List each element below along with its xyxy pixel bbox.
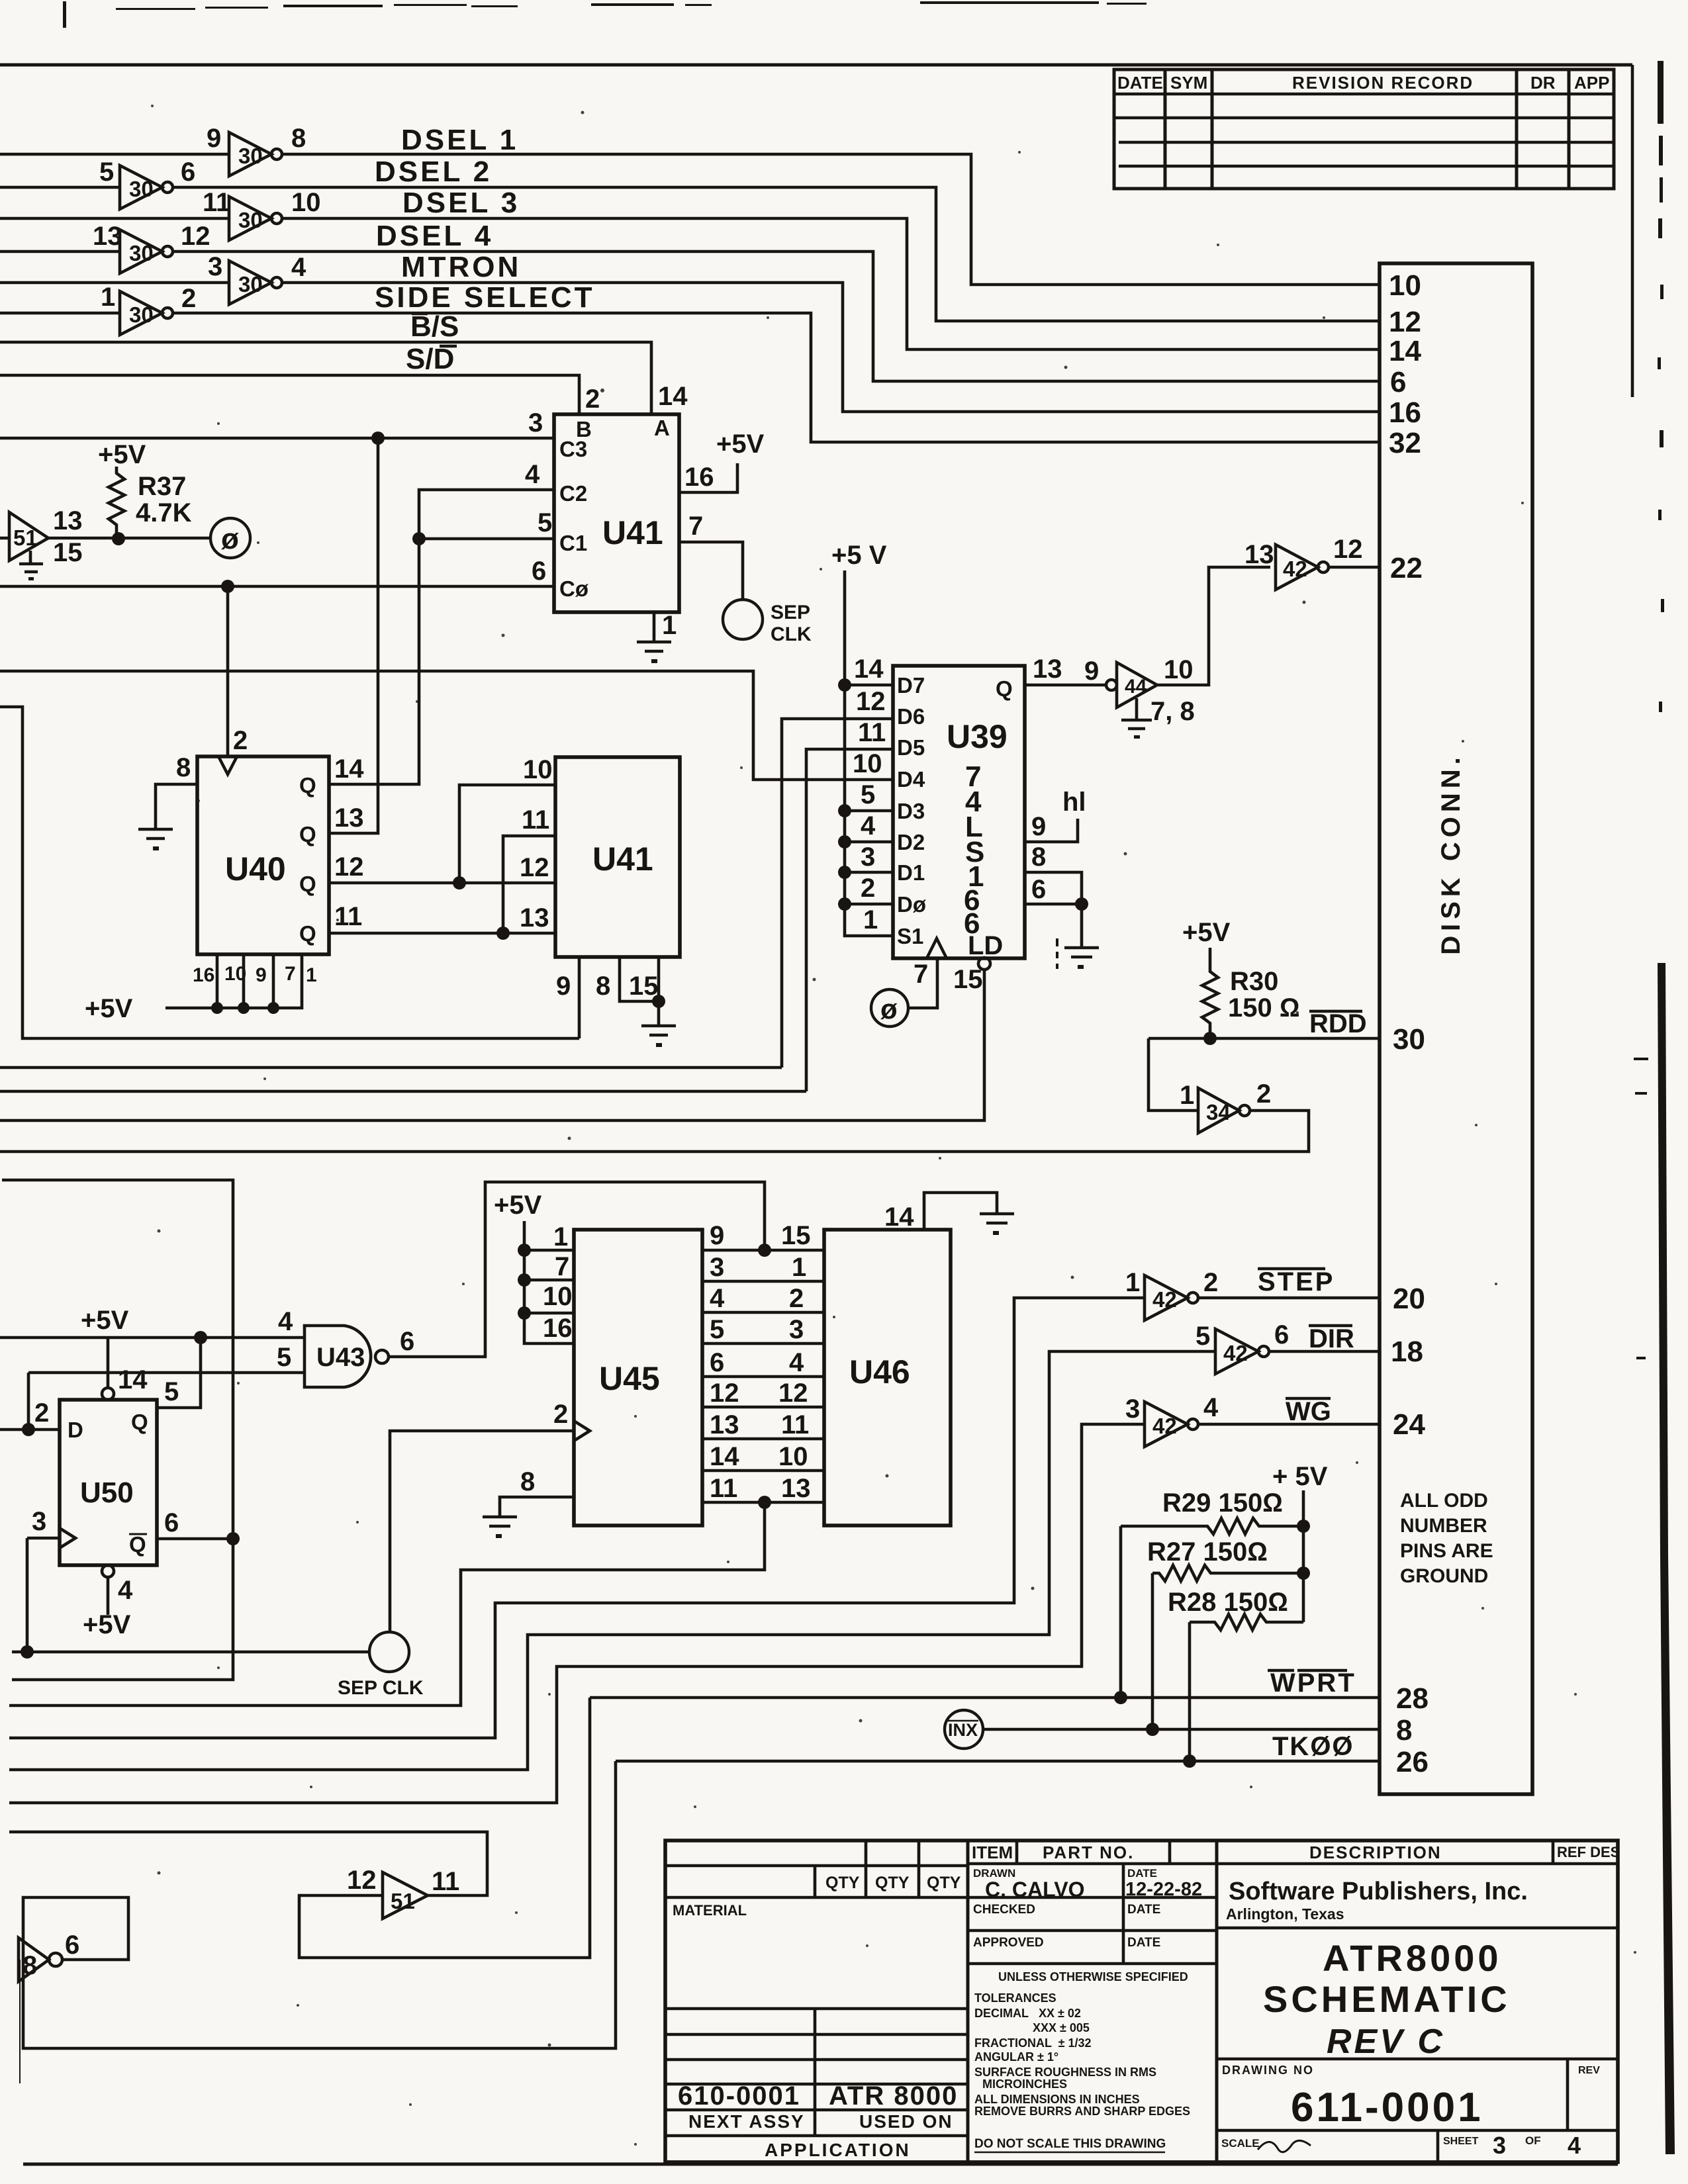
svg-text:14: 14 [854, 655, 884, 684]
svg-text:42: 42 [1283, 557, 1307, 581]
svg-text:Q: Q [299, 822, 316, 846]
svg-text:DO NOT SCALE THIS DRAWING: DO NOT SCALE THIS DRAWING [974, 2137, 1166, 2151]
svg-text:10: 10 [1389, 269, 1421, 302]
wire U43 pin5 to D junction [27, 1373, 30, 1430]
svg-text:R29 150Ω: R29 150Ω [1162, 1488, 1283, 1518]
title block middle section [968, 1864, 1217, 2152]
ground (U41a pin1) [637, 642, 671, 663]
wire U39 Q output [1025, 684, 1107, 687]
wire D6 bus line [0, 1066, 782, 1069]
svg-text:APP: APP [1574, 73, 1609, 93]
svg-text:10: 10 [853, 749, 882, 778]
svg-text:42: 42 [1152, 1414, 1177, 1438]
svg-text:12: 12 [1389, 306, 1421, 338]
svg-text:10: 10 [1164, 655, 1194, 684]
svg-text:11: 11 [432, 1867, 459, 1896]
svg-text:30: 30 [238, 208, 263, 232]
svg-text:DRAWING NO: DRAWING NO [1222, 2064, 1314, 2077]
svg-text:16: 16 [193, 964, 214, 986]
inverter 8-6 (bottom left) [19, 1931, 79, 1981]
svg-text:150 Ω: 150 Ω [1228, 993, 1300, 1023]
wire +5V pullup rail [1302, 1490, 1305, 1622]
svg-text:13: 13 [710, 1410, 739, 1439]
svg-text:MTRON: MTRON [401, 251, 521, 283]
ground (U41b) [641, 1026, 676, 1047]
svg-text:D7: D7 [897, 673, 925, 698]
wire row11/13 to left bus [9, 1502, 765, 1706]
svg-text:C3: C3 [559, 437, 587, 461]
wire DIR input net [9, 1351, 1215, 1770]
svg-text:20: 20 [1393, 1283, 1425, 1315]
svg-text:U41: U41 [592, 841, 653, 878]
svg-text:D5: D5 [897, 735, 925, 760]
svg-text:15: 15 [53, 538, 83, 567]
U50 clear bubble pin4 [102, 1565, 114, 1577]
svg-text:C. CALVO: C. CALVO [985, 1878, 1085, 1901]
svg-text:7: 7 [688, 512, 703, 541]
wire SEP CLK line [12, 1651, 369, 1654]
svg-text:SIDE SELECT: SIDE SELECT [375, 281, 595, 314]
page top border line [0, 64, 1632, 67]
node SEP CLK terminal (U41a) [723, 600, 812, 645]
inverter 44 [1084, 655, 1194, 707]
svg-text:611-0001: 611-0001 [1291, 2085, 1483, 2130]
wire row U45.12-U46.12 [702, 1406, 824, 1409]
svg-text:15: 15 [953, 965, 983, 994]
svg-text:12: 12 [181, 222, 211, 251]
wire C0 line (pin 6) [0, 585, 554, 588]
wire inverter42a out [1329, 566, 1380, 569]
inverter 30a (DSEL1) [207, 124, 306, 176]
wire U46 pin14 to ground [924, 1193, 997, 1230]
wire row U45.5-U46.3 [702, 1342, 824, 1345]
node +5V rail junctions [211, 1002, 279, 1014]
svg-text:ALL ODD: ALL ODD [1400, 1490, 1488, 1512]
wire Q-bar net riser [2, 1180, 233, 1680]
node D0 junction [838, 897, 851, 911]
svg-text:ITEM: ITEM [972, 1843, 1013, 1862]
U40 clock wedge pin2 [218, 756, 237, 774]
svg-text:10: 10 [778, 1442, 808, 1471]
svg-text:13: 13 [1244, 540, 1274, 569]
svg-text:MATERIAL: MATERIAL [673, 1902, 747, 1919]
svg-text:U43: U43 [316, 1343, 365, 1372]
svg-text:3: 3 [710, 1253, 724, 1282]
inverter 30c (DSEL3) [203, 188, 321, 240]
svg-text:16: 16 [684, 463, 714, 492]
ground (U46 pin14) [980, 1214, 1014, 1235]
wire U50 D input line [0, 1428, 60, 1432]
wire DSEL4 net [0, 251, 1380, 381]
svg-text:12: 12 [778, 1379, 808, 1408]
resistor R29 [1121, 1488, 1303, 1534]
wire row U45.14-U46.10 [702, 1469, 824, 1473]
svg-text:5: 5 [861, 780, 875, 809]
svg-text:11: 11 [522, 805, 549, 835]
svg-text:16: 16 [543, 1314, 573, 1343]
svg-text:7: 7 [555, 1252, 569, 1281]
svg-text:8: 8 [1396, 1714, 1412, 1747]
node pin8/15 junction [652, 995, 665, 1008]
chip U41 (first, top) [554, 414, 679, 612]
svg-text:DATE: DATE [1127, 1903, 1160, 1917]
svg-text:UNLESS OTHERWISE SPECIFIED: UNLESS OTHERWISE SPECIFIED [998, 1970, 1188, 1983]
wire U50 Q to U43 pin4 [157, 1338, 201, 1408]
svg-text:Cø: Cø [559, 576, 589, 601]
svg-text:U41: U41 [602, 514, 663, 551]
net label RDD overline [1309, 1009, 1367, 1038]
svg-text:3: 3 [32, 1507, 46, 1536]
svg-text:NUMBER: NUMBER [1400, 1515, 1487, 1537]
svg-text:4.7K: 4.7K [136, 498, 192, 527]
node D2 junction [838, 835, 851, 848]
svg-text:D1: D1 [897, 860, 925, 885]
svg-text:SURFACE ROUGHNESS IN RMS: SURFACE ROUGHNESS IN RMS [974, 2066, 1156, 2079]
svg-text:4: 4 [118, 1576, 133, 1605]
svg-text:U39: U39 [947, 718, 1008, 755]
wire U43 pin5 line [28, 1371, 305, 1375]
svg-text:ATR 8000: ATR 8000 [829, 2081, 958, 2111]
svg-text:APPLICATION: APPLICATION [765, 2140, 911, 2160]
svg-text:2: 2 [861, 874, 875, 903]
svg-text:13: 13 [53, 506, 83, 535]
svg-text:13: 13 [93, 222, 122, 251]
svg-text:16: 16 [1389, 396, 1421, 429]
svg-text:LD: LD [968, 931, 1003, 960]
node pin6/8 junction [1075, 897, 1088, 911]
wire U39 D2 stub [845, 841, 893, 844]
ground (U45 pin8) [483, 1517, 517, 1538]
svg-text:DR: DR [1530, 73, 1556, 93]
node C1 junction [412, 532, 426, 545]
svg-text:ø: ø [880, 993, 898, 1024]
wire U43 pin4 line [0, 1336, 305, 1340]
svg-text:10: 10 [543, 1282, 573, 1311]
svg-text:42: 42 [1152, 1287, 1177, 1312]
svg-text:2: 2 [585, 385, 600, 414]
wire U41b pin11 stub [503, 836, 555, 933]
svg-text:C1: C1 [559, 531, 587, 555]
gate U43 NAND [277, 1307, 414, 1387]
svg-text:610-0001: 610-0001 [678, 2081, 800, 2111]
svg-text:PINS ARE: PINS ARE [1400, 1540, 1493, 1562]
svg-text:+5V: +5V [81, 1306, 129, 1335]
node U45 pin1 junction [518, 1244, 531, 1257]
node U45 pin10 junction [518, 1306, 531, 1320]
svg-text:9: 9 [1031, 812, 1046, 841]
wire B/S net [0, 342, 651, 414]
chip U41 (second) [555, 757, 680, 957]
wire U45 pin2 clock input [390, 1431, 574, 1632]
wire U50 Q-bar output [157, 1537, 233, 1541]
buffer 51b [347, 1866, 459, 1919]
svg-text:ATR8000: ATR8000 [1323, 1937, 1502, 1979]
node Q11 junction [496, 927, 510, 940]
svg-text:Q: Q [129, 1532, 146, 1557]
svg-text:REV C: REV C [1327, 2023, 1445, 2061]
wire U50 pin4 to +5V [107, 1577, 110, 1615]
svg-text:DSEL 1: DSEL 1 [401, 124, 518, 156]
svg-text:30: 30 [238, 272, 263, 296]
wire U43 output to U45 row9 [389, 1182, 765, 1357]
svg-text:1: 1 [101, 283, 115, 312]
svg-text:13: 13 [1033, 655, 1062, 684]
svg-text:11: 11 [858, 718, 886, 747]
svg-text:4: 4 [525, 460, 540, 489]
svg-text:8: 8 [23, 1951, 37, 1980]
svg-text:3: 3 [861, 842, 875, 872]
resistor R37 [109, 467, 192, 533]
svg-text:9: 9 [710, 1221, 724, 1250]
net label B/S overline [410, 310, 459, 343]
svg-text:11: 11 [203, 188, 230, 217]
net label WG overline [1286, 1397, 1331, 1426]
svg-text:1: 1 [1125, 1268, 1140, 1297]
svg-text:+5V: +5V [716, 430, 765, 459]
svg-text:ANGULAR ± 1°: ANGULAR ± 1° [974, 2050, 1058, 2064]
svg-text:APPROVED: APPROVED [973, 1936, 1044, 1950]
svg-text:DATE: DATE [1117, 73, 1163, 93]
wire row U45.4-U46.2 [702, 1311, 824, 1314]
svg-text:WG: WG [1286, 1397, 1331, 1426]
wire U45 pin7 stub [524, 1279, 574, 1282]
svg-text:5: 5 [99, 158, 114, 187]
svg-text:15: 15 [781, 1221, 811, 1250]
svg-text:22: 22 [1390, 552, 1423, 584]
svg-text:REMOVE BURRS AND SHARP EDGES: REMOVE BURRS AND SHARP EDGES [974, 2105, 1190, 2118]
wire U39 pin6 to ground [1025, 904, 1082, 946]
ground (inverter 44) [1121, 698, 1152, 739]
node D3 junction [838, 804, 851, 817]
inverter 42a (pin22) [1244, 535, 1363, 590]
svg-text:2: 2 [181, 284, 196, 313]
svg-text:+ 5V: + 5V [1272, 1462, 1328, 1491]
wire U41a pin7 to SEP CLK [679, 542, 743, 600]
svg-text:14: 14 [334, 754, 364, 784]
wire U39 pin9 to hl [1025, 819, 1078, 842]
wire STEP output [1198, 1297, 1380, 1300]
U45 clock wedge [574, 1421, 590, 1441]
net label WPRT overline [1268, 1668, 1356, 1698]
node R29/+5V junction [1297, 1520, 1310, 1533]
wire U41a pin1 to ground [653, 612, 656, 641]
svg-text:44: 44 [1125, 676, 1147, 698]
svg-text:+5V: +5V [98, 440, 146, 469]
svg-text:14: 14 [118, 1365, 148, 1394]
node C0 junction [221, 580, 234, 593]
wire inverter44 out to pin22 net [1157, 567, 1270, 685]
chip U40 [197, 756, 329, 954]
svg-text:INX: INX [948, 1720, 978, 1740]
wire U50 pin3 clock [27, 1537, 60, 1540]
svg-text:2: 2 [34, 1398, 49, 1428]
svg-text:30: 30 [238, 144, 263, 168]
wire DSEL3 net [0, 218, 1380, 349]
node U43 pin4 junction [194, 1331, 207, 1344]
svg-text:R30: R30 [1230, 967, 1278, 996]
svg-text:SCALE: SCALE [1221, 2137, 1260, 2150]
svg-text:PART NO.: PART NO. [1043, 1843, 1134, 1862]
svg-text:5: 5 [538, 508, 552, 537]
wire SIDE SELECT net [0, 313, 1380, 442]
wire U41b pin15 to ground [657, 957, 661, 1024]
svg-text:+5 V: +5 V [831, 541, 887, 570]
svg-text:Software Publishers, Inc.: Software Publishers, Inc. [1229, 1878, 1528, 1905]
title block left section [665, 1841, 968, 2160]
node U45 pin7 junction [518, 1273, 531, 1287]
svg-text:USED ON: USED ON [859, 2111, 953, 2132]
wire RDD to inverter34 input [1149, 1038, 1198, 1111]
wire R29 to WPRT [1119, 1526, 1123, 1698]
svg-text:6: 6 [1390, 366, 1406, 398]
svg-text:14: 14 [1389, 335, 1421, 367]
svg-text:TOLERANCES: TOLERANCES [974, 1991, 1056, 2005]
power +5V (U50 preset) [81, 1306, 129, 1388]
node Q-bar junction [226, 1532, 240, 1545]
wire C1 (pin 5) stub [419, 537, 554, 541]
svg-text:R37: R37 [138, 472, 186, 501]
svg-text:8: 8 [520, 1467, 535, 1496]
inverter 34 [1180, 1079, 1271, 1133]
svg-text:REVISION RECORD: REVISION RECORD [1292, 73, 1474, 93]
chip U45 [574, 1230, 702, 1525]
svg-text:ALL DIMENSIONS IN INCHES: ALL DIMENSIONS IN INCHES [974, 2093, 1140, 2106]
svg-text:10: 10 [523, 755, 553, 784]
svg-text:34: 34 [1206, 1100, 1231, 1124]
svg-text:D4: D4 [897, 767, 925, 792]
wire U40 bottom pins to +5V rail [165, 954, 302, 1008]
svg-text:3: 3 [208, 252, 222, 281]
wire U45 pin1 stub [524, 1249, 574, 1252]
wire DSEL1 net [0, 154, 1380, 285]
svg-text:4: 4 [710, 1284, 725, 1313]
wire U39 pin8 stub [1025, 872, 1082, 904]
svg-text:2: 2 [1256, 1079, 1271, 1109]
wire U40 pin8 to ground [156, 784, 197, 828]
svg-text:+5V: +5V [83, 1610, 131, 1639]
svg-text:D3: D3 [897, 799, 925, 823]
node D7 junction [838, 678, 851, 692]
svg-text:DSEL 2: DSEL 2 [375, 156, 492, 188]
svg-text:SEP CLK: SEP CLK [338, 1677, 424, 1699]
node SEP CLK terminal (U45) [338, 1632, 424, 1699]
wire row U45.3-U46.1 [702, 1280, 824, 1283]
svg-text:FRACTIONAL ± 1/32: FRACTIONAL ± 1/32 [974, 2036, 1092, 2050]
wire U45 pin8 to ground [500, 1497, 574, 1516]
svg-text:6: 6 [181, 158, 195, 187]
svg-text:DIR: DIR [1309, 1324, 1354, 1353]
svg-text:12: 12 [1333, 535, 1363, 564]
svg-text:+5V: +5V [1182, 918, 1231, 947]
svg-text:QTY: QTY [927, 1874, 961, 1892]
svg-text:13: 13 [334, 803, 364, 833]
net label STEP overline [1258, 1267, 1335, 1297]
svg-text:9: 9 [556, 972, 571, 1001]
svg-text:4: 4 [789, 1348, 804, 1377]
svg-text:REV: REV [1578, 2065, 1600, 2076]
svg-text:11: 11 [781, 1410, 809, 1439]
svg-text:12: 12 [710, 1379, 739, 1408]
svg-text:GROUND: GROUND [1400, 1565, 1488, 1587]
svg-text:30: 30 [1393, 1023, 1425, 1056]
svg-text:6: 6 [400, 1327, 414, 1356]
node R37 junction [112, 532, 125, 545]
svg-text:DISK CONN.: DISK CONN. [1436, 752, 1466, 955]
wire buffer51b output net [9, 1832, 487, 1895]
wire RDD line [1149, 1037, 1380, 1040]
svg-text:SYM: SYM [1170, 73, 1207, 93]
svg-text:1: 1 [553, 1222, 568, 1251]
wire D5 bus line [0, 1090, 806, 1093]
wire U39 D1 stub [845, 871, 893, 874]
svg-text:R27 150Ω: R27 150Ω [1147, 1537, 1268, 1567]
svg-text:14: 14 [658, 382, 688, 411]
dashed mark near ground [1056, 938, 1058, 969]
power +5V (U45 inputs) [494, 1191, 574, 1343]
U50 clock wedge [60, 1528, 75, 1548]
inverter 51a (left edge) [0, 506, 83, 567]
power +5V rail (U39 inputs) [831, 541, 893, 936]
svg-text:U45: U45 [599, 1360, 660, 1397]
wire U41b pin10 stub [459, 785, 555, 883]
node phi terminal (U39 S1) [871, 989, 908, 1026]
wire RDD inverted bus line [0, 1111, 1309, 1152]
wire MTRON net [0, 283, 1380, 412]
right edge scan streaks [1634, 61, 1675, 2154]
wire inverter51a output to phi [48, 537, 211, 540]
svg-text:4: 4 [1203, 1393, 1219, 1422]
svg-text:Q: Q [996, 676, 1013, 701]
svg-text:9: 9 [207, 124, 221, 153]
svg-text:6: 6 [710, 1348, 724, 1377]
svg-text:10: 10 [291, 188, 321, 217]
svg-text:WPRT: WPRT [1270, 1668, 1356, 1698]
svg-text:ø: ø [221, 523, 239, 555]
wire U40 Q11 to U41b pin13 [329, 932, 555, 935]
svg-text:11: 11 [334, 902, 362, 931]
ground (inverter 51a) [19, 551, 43, 580]
svg-text:10: 10 [224, 963, 246, 985]
svg-text:D: D [68, 1418, 83, 1442]
resistor R30 [1202, 948, 1300, 1038]
chip U50 [60, 1400, 157, 1565]
inverter 30e (MTRON) [208, 252, 306, 304]
svg-text:1: 1 [863, 905, 878, 934]
svg-text:5: 5 [1196, 1322, 1210, 1351]
revision record table [1114, 69, 1614, 189]
wire row U45.9-U46.15 [702, 1249, 824, 1252]
svg-text:1: 1 [1180, 1081, 1194, 1110]
svg-text:9: 9 [1084, 657, 1099, 686]
wire R28 to TK00 [1188, 1622, 1192, 1761]
svg-text:5: 5 [164, 1377, 179, 1406]
svg-text:STEP: STEP [1258, 1267, 1335, 1297]
svg-text:QTY: QTY [875, 1874, 910, 1892]
svg-text:SHEET: SHEET [1443, 2136, 1479, 2147]
page left lower border mark [19, 1960, 21, 2083]
wire pin9 bus line [0, 707, 579, 1038]
svg-text:12: 12 [520, 853, 549, 882]
node R27/+5V junction [1297, 1567, 1310, 1580]
svg-text:51: 51 [391, 1889, 415, 1913]
svg-text:13: 13 [520, 903, 549, 933]
svg-text:1: 1 [306, 964, 317, 986]
title block right section [1217, 1878, 1618, 2162]
wire U39 D6 stub riser [782, 719, 893, 1068]
svg-text:12: 12 [347, 1866, 377, 1895]
wire riser C3 to U40 Q13 [329, 438, 378, 833]
svg-text:OF: OF [1525, 2134, 1541, 2147]
